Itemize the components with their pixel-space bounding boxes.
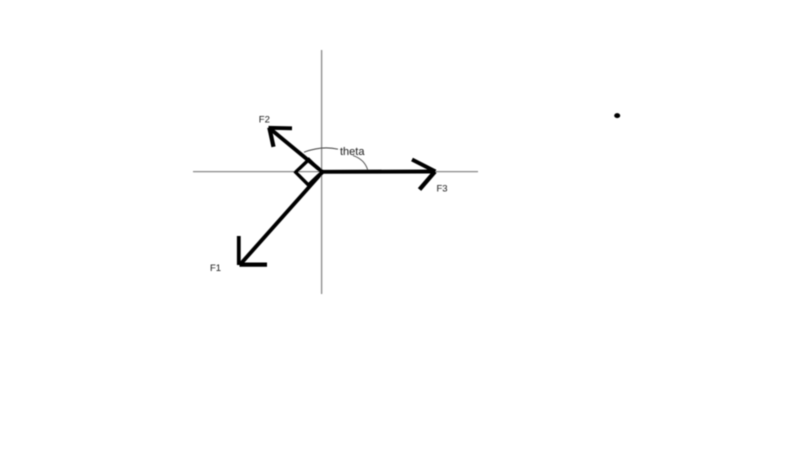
- svg-text:F1: F1: [210, 263, 221, 274]
- x axis: [193, 171, 478, 173]
- theta leader left: [304, 148, 338, 152]
- wire F3 arrowhead: [412, 160, 436, 172]
- stray dot: [614, 113, 620, 118]
- svg-text:theta: theta: [340, 146, 365, 158]
- wire F1 arrowhead: [237, 236, 241, 265]
- wire F2 arrowhead: [269, 126, 293, 130]
- theta leader right: [353, 156, 368, 170]
- right angle marker: [296, 160, 322, 185]
- wire F2 shaft: [269, 128, 323, 172]
- svg-text:F2: F2: [259, 114, 270, 125]
- y axis: [321, 50, 323, 294]
- svg-text:F3: F3: [437, 184, 448, 195]
- wire F3 shaft: [323, 170, 436, 174]
- wire F1 shaft: [241, 172, 323, 264]
